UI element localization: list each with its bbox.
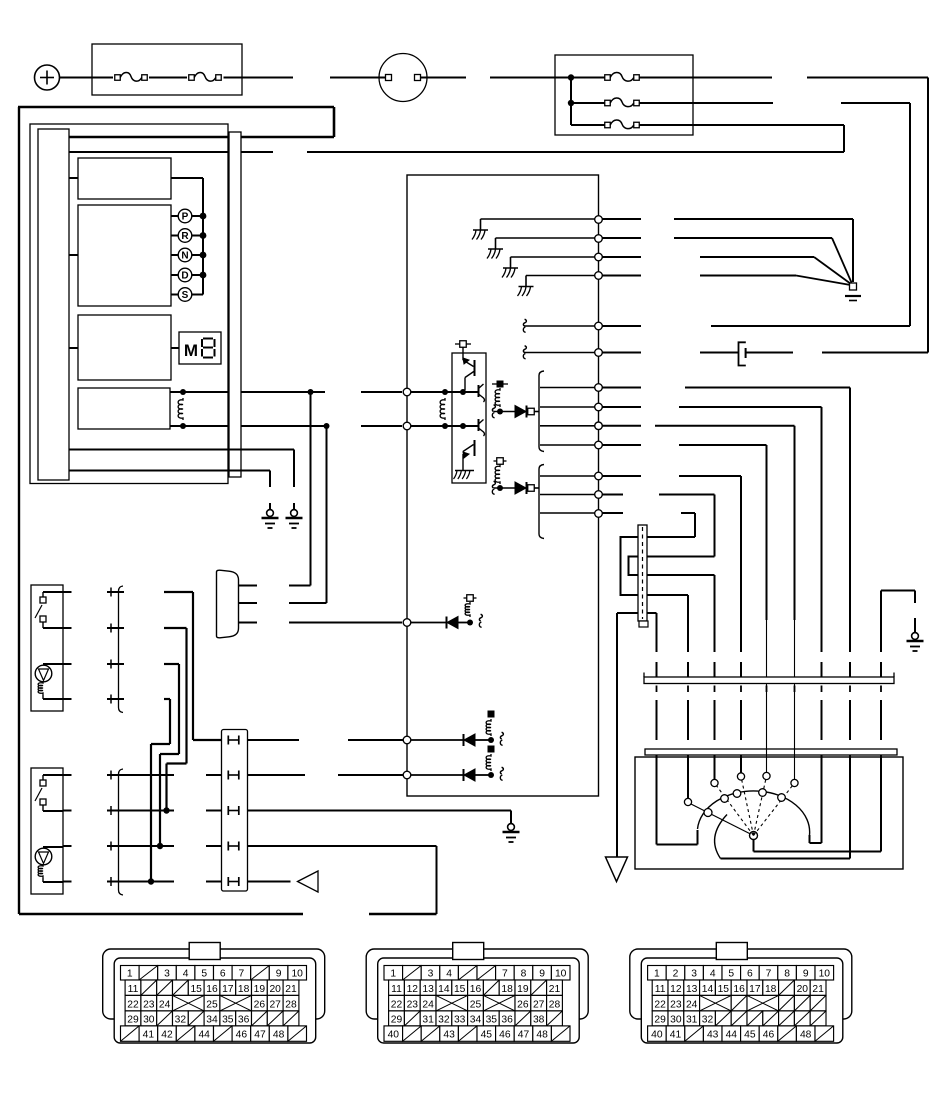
wire bracket A row 407 (540, 406, 595, 408)
connector A shell (103, 949, 325, 1019)
inline connector column 1 (119, 586, 124, 713)
ground G3 (914, 618, 916, 627)
transistor array top terminal (460, 341, 467, 348)
svg-text:7: 7 (239, 968, 245, 979)
column terminal pins (684, 798, 691, 805)
svg-text:41: 41 (670, 1030, 682, 1041)
ignition switch (379, 54, 427, 102)
ECU right pin y352.5 (595, 349, 603, 357)
H-block connector (222, 730, 248, 892)
indicator lamp P (171, 215, 179, 217)
connector pins row 699 (63, 698, 72, 700)
wire main loop top (18, 106, 334, 109)
wire column 714 into box (714, 755, 716, 780)
ground G1 (293, 503, 295, 510)
wire row740 segments (248, 739, 300, 741)
svg-text:47: 47 (518, 1030, 530, 1041)
connector D tab (716, 943, 747, 960)
svg-text:36: 36 (501, 1014, 513, 1025)
svg-text:9: 9 (539, 968, 545, 979)
svg-text:16: 16 (206, 984, 218, 995)
ECU right pin y425.8 (595, 422, 603, 430)
wire drop x310 to connector D (310, 392, 312, 586)
lamp resistor (38, 864, 43, 878)
svg-text:16: 16 (733, 984, 745, 995)
H pin row 810 (227, 806, 229, 815)
break hook row 325 (524, 325, 595, 327)
connector B shell (366, 949, 588, 1019)
svg-text:18: 18 (765, 984, 777, 995)
wire row664 down to row846 (164, 663, 179, 665)
svg-text:44: 44 (726, 1030, 738, 1041)
resistor R3 (495, 388, 500, 407)
wire distributor column x821 (821, 407, 823, 652)
off-page triangle (298, 871, 319, 892)
ECU right pin y275.5 (595, 272, 603, 280)
svg-text:19: 19 (254, 984, 266, 995)
svg-text:43: 43 (707, 1030, 719, 1041)
svg-text:31: 31 (422, 1014, 434, 1025)
ECU internal ground 3 (511, 256, 595, 258)
wire ground branch top right (881, 590, 915, 592)
indicator bus vertical (202, 178, 204, 295)
wire distributor column x741 (740, 476, 742, 652)
M indicator unit (179, 332, 221, 364)
svg-text:20: 20 (269, 984, 281, 995)
svg-text:45: 45 (481, 1030, 493, 1041)
transistor array box (452, 353, 486, 483)
junction dot row881 (148, 878, 154, 884)
fuse F4 (605, 100, 611, 106)
wire D pin stubs (238, 585, 257, 587)
ECU right pin y407 (595, 403, 603, 411)
svg-text:29: 29 (391, 1014, 403, 1025)
H pin row 775 (227, 771, 229, 780)
wire fuse box 1 to ignition switch (224, 77, 294, 79)
ECU left pin row426 (403, 422, 411, 430)
arc contact pins (721, 795, 729, 803)
svg-text:N: N (181, 251, 188, 262)
battery B+ terminal (35, 65, 60, 90)
svg-text:25: 25 (470, 999, 482, 1010)
junction dot R (200, 232, 207, 239)
gauge sub-box 4 (78, 388, 170, 429)
junction dot row426 (324, 423, 330, 429)
svg-text:10: 10 (291, 968, 303, 979)
wire gauge output y449 (69, 449, 294, 451)
diode D1 row (497, 409, 503, 415)
svg-text:10: 10 (819, 968, 831, 979)
wire Q node row426 (411, 425, 478, 427)
svg-text:28: 28 (285, 999, 297, 1010)
indicator lamp R (171, 235, 179, 237)
ECU right pin y513.5 (595, 510, 603, 518)
svg-text:46: 46 (763, 1030, 775, 1041)
wire bracket B row 494.5 (540, 494, 595, 496)
svg-text:P: P (182, 212, 189, 223)
svg-text:42: 42 (161, 1030, 173, 1041)
wire row405 (603, 406, 642, 408)
resistor R4 (495, 465, 500, 485)
H pin row 846 (227, 842, 229, 851)
svg-text:23: 23 (670, 999, 682, 1010)
svg-text:1: 1 (127, 968, 133, 979)
svg-text:5: 5 (728, 968, 734, 979)
wire main loop left vertical (18, 107, 20, 914)
fuse F3 (605, 75, 611, 81)
ECU right pin y445 (595, 441, 603, 449)
wire rotor to sensor row (721, 858, 851, 860)
svg-text:14: 14 (438, 984, 450, 995)
switch contacts (43, 591, 63, 593)
svg-text:29: 29 (654, 1014, 666, 1025)
wire distributor column x714 (714, 575, 716, 652)
rotor arm (687, 802, 754, 836)
transistor array ground (455, 470, 474, 472)
wire row699 down to row881 (164, 698, 170, 700)
wire row219 (603, 218, 642, 220)
ECU right pin y494.5 (595, 491, 603, 499)
wire right-edge vertical from F4 (909, 103, 911, 326)
warning lamp LED (43, 846, 63, 848)
wire row325 (IG feed) (603, 325, 642, 327)
ECU internal ground 2 (496, 237, 595, 239)
svg-text:46: 46 (499, 1030, 511, 1041)
svg-text:22: 22 (654, 999, 666, 1010)
H pin row 881 (227, 877, 229, 886)
connector B pin grid (384, 966, 403, 981)
svg-text:4: 4 (710, 968, 716, 979)
wire drop x326 to connector D (326, 426, 328, 603)
wire main loop return y137 (69, 136, 334, 139)
connector pins row 810 (63, 810, 72, 812)
wire jump 537-595 (621, 537, 639, 595)
svg-text:1: 1 (654, 968, 660, 979)
svg-text:46: 46 (236, 1030, 248, 1041)
wire y152 from fuse F5 to gauge assembly (307, 151, 844, 153)
wire C row613 left to arrow (617, 612, 638, 614)
svg-text:21: 21 (285, 984, 297, 995)
fuse box 1 (92, 44, 242, 95)
svg-text:12: 12 (407, 984, 419, 995)
svg-text:24: 24 (422, 999, 434, 1010)
svg-text:34: 34 (206, 1014, 218, 1025)
svg-text:9: 9 (276, 968, 282, 979)
svg-text:33: 33 (454, 1014, 466, 1025)
fuse F2 (189, 75, 195, 81)
svg-text:R: R (181, 231, 189, 242)
wire row y392 from sub-box4 (170, 391, 229, 393)
wire column 881 into box (880, 755, 882, 852)
ECU left pin row740 (403, 736, 411, 744)
wire distributor column x881 (880, 591, 882, 653)
wire Q node row392 (411, 391, 478, 393)
svg-text:22: 22 (391, 999, 403, 1010)
inline connector column 2 (119, 769, 124, 895)
position switch box (635, 757, 903, 869)
svg-text:32: 32 (175, 1014, 187, 1025)
bracket A (539, 371, 544, 452)
svg-text:47: 47 (254, 1030, 266, 1041)
svg-text:43: 43 (443, 1030, 455, 1041)
svg-text:27: 27 (269, 999, 281, 1010)
gauge sub-box 2 (shift position indicator) (78, 205, 171, 306)
gauge sub-box 3 (shift display driver) (78, 315, 171, 380)
fuse F1 (115, 75, 121, 81)
svg-text:21: 21 (812, 984, 824, 995)
wire distributor column x766 (766, 445, 768, 620)
wire jump 556-575 (629, 557, 639, 576)
wire row257 (603, 256, 642, 258)
junction dot row392 (308, 389, 314, 395)
ECU right pin y326 (595, 322, 603, 330)
svg-text:28: 28 (549, 999, 561, 1010)
wire bracket B row 476 (540, 475, 595, 477)
transistor Q1 (463, 358, 469, 364)
svg-text:23: 23 (407, 999, 419, 1010)
svg-text:2: 2 (673, 968, 679, 979)
wire row628 down to row810 (164, 627, 187, 629)
svg-text:1: 1 (390, 968, 396, 979)
svg-text:3: 3 (428, 968, 434, 979)
terminal D3 (467, 595, 474, 602)
wire fuse F4 output (IG) to right edge (639, 102, 773, 104)
svg-text:35: 35 (222, 1014, 234, 1025)
svg-text:7: 7 (766, 968, 772, 979)
connector pins row 846 (63, 845, 72, 847)
connector D shell (217, 570, 239, 638)
svg-text:3: 3 (691, 968, 697, 979)
gauge connector bar (229, 132, 241, 477)
svg-text:D: D (181, 271, 188, 282)
svg-text:40: 40 (388, 1030, 400, 1041)
svg-text:6: 6 (220, 968, 226, 979)
wire C row613 right (647, 612, 657, 614)
resistor R1 in gauge (180, 389, 186, 395)
off-page arrow (606, 857, 628, 882)
wire row513 (603, 512, 624, 514)
connector pins row 881 (63, 881, 72, 883)
diode D5 row (411, 774, 464, 776)
junction dot D (200, 272, 207, 279)
fuse F5 (605, 122, 611, 128)
svg-text:30: 30 (670, 1014, 682, 1025)
wire distributor column x850 (849, 388, 851, 653)
wire C right 595 (647, 594, 688, 596)
terminal D5 (488, 746, 495, 753)
wire sub-box3 to M unit (171, 347, 179, 349)
svg-text:18: 18 (238, 984, 250, 995)
svg-text:26: 26 (254, 999, 266, 1010)
ECU internal ground 1 (481, 218, 595, 220)
wire drop x695 (694, 513, 696, 537)
wire D row1 to drop (289, 585, 311, 587)
wire D row2 to drop (289, 602, 327, 604)
wire bracket B row 513 (540, 512, 595, 514)
transistor Q3 (478, 419, 480, 431)
wire row424 (603, 425, 642, 427)
wire distributor column x794 (794, 426, 796, 620)
junction dot P (200, 213, 207, 220)
wire column 741 into box (740, 755, 742, 773)
wire battery to fuse box 1 (60, 77, 114, 79)
svg-text:35: 35 (486, 1014, 498, 1025)
svg-text:36: 36 (238, 1014, 250, 1025)
ground G4 (510, 817, 512, 824)
svg-text:3: 3 (164, 968, 170, 979)
bar1 pin ticks (656, 686, 658, 693)
svg-text:16: 16 (470, 984, 482, 995)
svg-text:48: 48 (536, 1030, 548, 1041)
svg-text:26: 26 (517, 999, 529, 1010)
wire bottom return (19, 913, 303, 915)
svg-text:45: 45 (744, 1030, 756, 1041)
svg-text:13: 13 (686, 984, 698, 995)
svg-text:12: 12 (670, 984, 682, 995)
wire column 821 into box (821, 755, 823, 843)
svg-text:30: 30 (143, 1014, 155, 1025)
ECU right pin y219.5 (595, 216, 603, 224)
svg-text:32: 32 (438, 1014, 450, 1025)
wire bracket A row 387.5 (540, 387, 595, 389)
capacitor C1 (739, 342, 746, 365)
svg-text:11: 11 (655, 984, 666, 995)
wire row275 (603, 275, 642, 277)
svg-text:15: 15 (718, 984, 730, 995)
svg-text:15: 15 (190, 984, 202, 995)
wire drop x714 upper (714, 495, 716, 557)
svg-text:17: 17 (749, 984, 761, 995)
ECU left pin row392 (403, 388, 411, 396)
transistor Q4 (463, 445, 474, 452)
wire row810 segments (107, 810, 174, 812)
indicator lamp D (171, 274, 179, 276)
wire between fuses (149, 77, 187, 79)
svg-text:25: 25 (206, 999, 218, 1010)
thin columns through bars (766, 749, 768, 776)
resistor R6 (486, 719, 491, 736)
wire row353 (B+ feed) (603, 352, 642, 354)
ECU right pin y238.5 (595, 235, 603, 243)
transistor Q2 (478, 385, 480, 397)
switch contacts (43, 774, 63, 776)
wire row y426 from sub-box4 (170, 425, 229, 427)
svg-text:27: 27 (533, 999, 545, 1010)
terminal D4 (488, 711, 495, 718)
ground G2 (269, 503, 271, 510)
indicator lamp N (171, 254, 179, 256)
wire row385 (603, 387, 642, 389)
ECU right pin y476 (595, 472, 603, 480)
svg-text:8: 8 (784, 968, 790, 979)
svg-text:14: 14 (702, 984, 714, 995)
distributor bar 2 (645, 749, 897, 755)
svg-text:15: 15 (454, 984, 466, 995)
wire C right 537 (647, 536, 695, 538)
wire column 688 into box (687, 755, 689, 799)
wire row592 to H-block (164, 591, 193, 593)
svg-text:18: 18 (501, 984, 513, 995)
svg-text:19: 19 (517, 984, 529, 995)
wire row443 (603, 444, 642, 446)
gauge sub-box 1 (78, 158, 171, 199)
wire bracket A row 425.8 (540, 425, 595, 427)
svg-text:11: 11 (391, 984, 402, 995)
connector pins row 628 (63, 627, 72, 629)
pull-up terminal A (497, 381, 504, 388)
svg-text:4: 4 (183, 968, 189, 979)
svg-text:48: 48 (800, 1030, 812, 1041)
wire stubs strip to sub-boxes (69, 177, 78, 179)
junction dots and feed in fuse box 2 (570, 78, 572, 126)
ECU left pin row622 (403, 619, 411, 627)
svg-text:6: 6 (747, 968, 753, 979)
connector A pin grid (121, 966, 140, 981)
diode D2 row (497, 485, 503, 491)
wire C right 556 (647, 556, 715, 558)
svg-text:22: 22 (127, 999, 139, 1010)
wire row846 segments (107, 845, 174, 847)
ECU internal ground 4 (526, 275, 595, 277)
junction dot N (200, 252, 207, 259)
connector A tab (189, 943, 220, 960)
svg-text:7: 7 (502, 968, 508, 979)
wire column 850 into box (849, 755, 851, 859)
wire ignition switch to fuse box 2 (421, 77, 467, 79)
connector pins row 664 (63, 663, 72, 665)
svg-text:13: 13 (422, 984, 434, 995)
svg-text:20: 20 (797, 984, 809, 995)
wire gauge output y470 (69, 470, 270, 472)
wire fuse F5 output down (639, 124, 844, 126)
svg-text:32: 32 (702, 1014, 714, 1025)
ECU right pin y387.5 (595, 384, 603, 392)
junction dot row810 (163, 807, 169, 813)
junction dot row846 (157, 843, 163, 849)
H pin row 740 (227, 736, 229, 745)
wire row494 (603, 494, 624, 496)
connector D shell (630, 949, 852, 1019)
wire fuse F3 output (B+) to right edge (639, 77, 772, 79)
switch box (31, 768, 63, 894)
svg-text:11: 11 (128, 984, 139, 995)
svg-text:24: 24 (686, 999, 698, 1010)
svg-text:S: S (182, 290, 189, 301)
switch box (31, 585, 63, 711)
distributor bar 1 (644, 677, 894, 684)
wire right-edge vertical from F3 (927, 78, 929, 353)
indicator lamp S (171, 294, 179, 296)
resistor R5 (465, 602, 470, 617)
resistor R7 (486, 754, 491, 771)
junction dots row426 (442, 423, 448, 429)
dashed selector rays (715, 783, 754, 836)
svg-text:17: 17 (222, 984, 234, 995)
wire row238 (603, 237, 642, 239)
gauge assembly box (30, 124, 228, 484)
junction dots row392 (442, 389, 448, 395)
ground point main harness (850, 283, 857, 290)
svg-text:23: 23 (143, 999, 155, 1010)
svg-text:40: 40 (651, 1030, 663, 1041)
ECU left pin row775 (403, 771, 411, 779)
wire C right 575 (647, 574, 715, 576)
pull-up terminal B (497, 458, 504, 465)
gauge inner connector strip (38, 129, 69, 480)
seven-segment digit (203, 338, 213, 340)
svg-text:4: 4 (446, 968, 452, 979)
wire row775 segments (107, 774, 174, 776)
